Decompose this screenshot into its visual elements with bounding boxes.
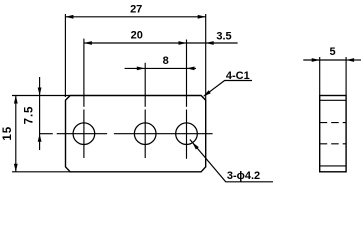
side view hidden hole line bottom <box>320 143 346 145</box>
side view chamfer edge top <box>320 99 346 101</box>
hole 2 (phi 4.2) <box>134 123 156 145</box>
svg-text:20: 20 <box>131 29 143 41</box>
side view hidden hole line top <box>320 122 346 124</box>
svg-text:4-C1: 4-C1 <box>226 70 250 82</box>
hole 3 (phi 4.2) <box>176 123 198 145</box>
horizontal centerline through holes <box>39 133 212 135</box>
svg-text:3-ϕ4.2: 3-ϕ4.2 <box>227 170 260 182</box>
extension line left for 27 <box>64 14 66 97</box>
svg-text:8: 8 <box>163 55 169 67</box>
vertical centerline hole 2 / extension for 8 <box>144 63 146 158</box>
svg-text:27: 27 <box>130 3 142 15</box>
side view outline <box>320 96 346 172</box>
leader 3-phi4.2 <box>190 140 273 182</box>
dimension 15 line with arrows <box>15 96 17 172</box>
extension line bottom-left for 15 <box>12 171 70 173</box>
svg-text:3.5: 3.5 <box>216 31 231 43</box>
extension line top-left for 15 and 7.5 <box>12 95 70 97</box>
svg-text:7.5: 7.5 <box>24 106 36 125</box>
dimension 20 line with arrows <box>84 42 187 44</box>
vertical centerline hole 3 / extension for 20, 8, 3.5 <box>186 40 188 159</box>
vertical centerline hole 1 / extension for 20 <box>83 39 85 158</box>
plate outline (front view, chamfered corners 4-C1) <box>66 96 206 172</box>
hole 1 (phi 4.2) <box>73 123 95 145</box>
dimension 7.5 line (outside arrows) <box>39 77 41 150</box>
dimension 5 line (outside arrows) <box>303 59 361 61</box>
extension lines for 5 <box>319 57 321 96</box>
dimension 8 line (outside arrows) <box>125 67 196 69</box>
svg-text:5: 5 <box>329 46 335 58</box>
svg-text:15: 15 <box>2 126 14 141</box>
leader 4-C1 <box>204 81 252 97</box>
extension line right for 27 and 3.5 <box>205 14 207 100</box>
dimension 3.5 line (outside arrow right) <box>187 42 206 44</box>
side view chamfer edge bottom <box>320 165 346 167</box>
dimension 27 line with arrows <box>65 16 205 18</box>
